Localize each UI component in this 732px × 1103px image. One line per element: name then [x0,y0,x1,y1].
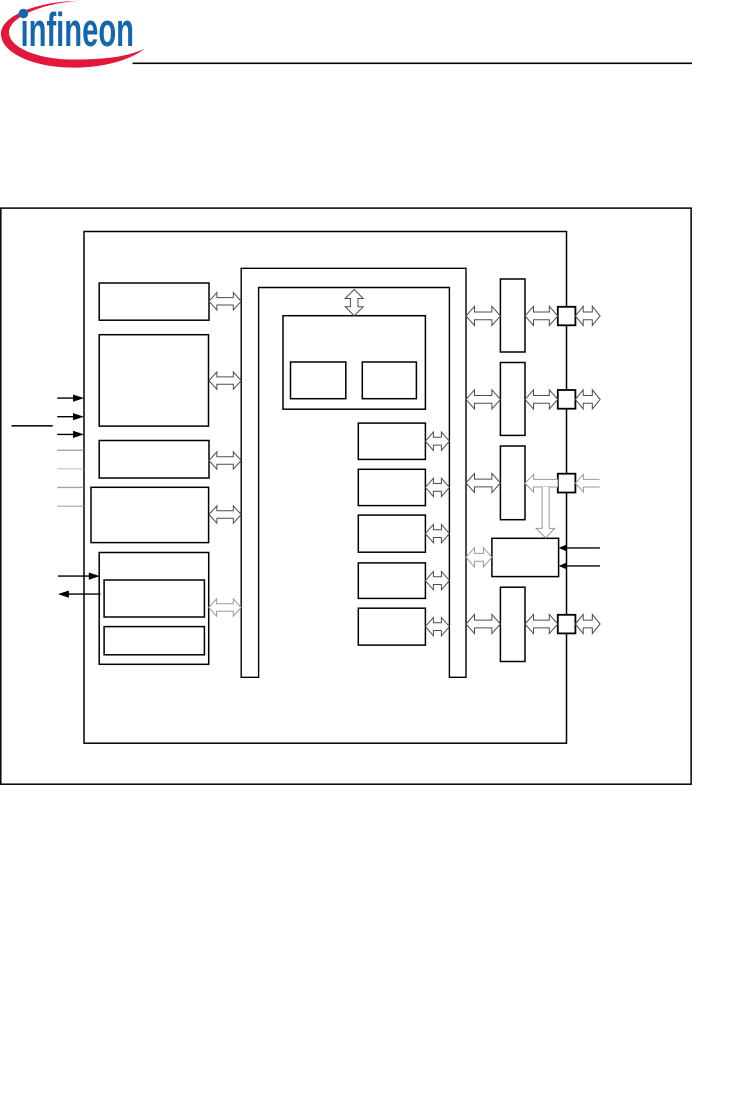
svg-text:ınfineon: ınfineon [21,3,135,56]
